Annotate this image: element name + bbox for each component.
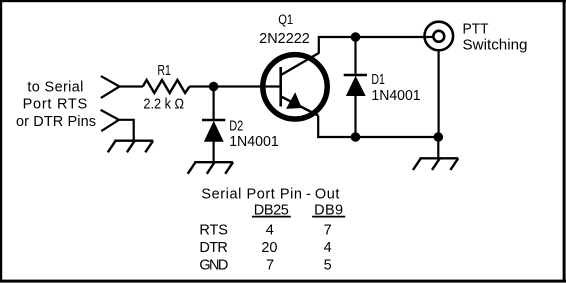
wire: bottom connector to ground [118, 120, 134, 141]
svg-text:7: 7 [266, 257, 274, 273]
svg-text:7: 7 [324, 222, 332, 238]
underline DB25 [252, 216, 291, 218]
node junction top of D1 [351, 32, 361, 42]
ground (bottom right) [413, 158, 458, 170]
svg-text:4: 4 [266, 222, 274, 238]
svg-text:1N4001: 1N4001 [371, 88, 420, 104]
input pin connector (top, to R1) [101, 76, 120, 98]
table: Serial Port Pin-Out [199, 187, 345, 274]
connector J1 PTT jack [425, 22, 454, 51]
node junction bottom of D1 [351, 132, 361, 142]
diode D1 [344, 75, 367, 137]
node junction at R1/D2 [209, 82, 219, 92]
svg-text:DTR: DTR [199, 240, 228, 256]
svg-text:20: 20 [261, 240, 277, 256]
wire: junction down to D2 [213, 87, 215, 122]
wire: R1 to base bar [190, 85, 281, 87]
transistor Q1 [263, 53, 327, 119]
svg-text:Serial Port Pin - Out: Serial Port Pin - Out [201, 187, 339, 203]
svg-text:R1: R1 [157, 63, 171, 79]
svg-text:Q1: Q1 [278, 12, 293, 27]
wire: D1 top lead [354, 37, 356, 76]
underline DB9 [312, 216, 345, 218]
node junction bottom right [434, 132, 444, 142]
ground (below D2) [188, 162, 233, 174]
diode D2 [202, 120, 225, 163]
ground (below bottom connector) [108, 141, 153, 153]
svg-text:1N4001: 1N4001 [229, 134, 279, 150]
wire: collector up and along top [319, 37, 434, 54]
svg-text:2.2 k Ω: 2.2 k Ω [143, 97, 184, 113]
wire base: connector tip to R1 start [119, 85, 144, 87]
svg-text:Port RTS: Port RTS [23, 97, 88, 113]
svg-text:RTS: RTS [199, 222, 228, 238]
resistor R1 zigzag [143, 80, 190, 93]
svg-text:2N2222: 2N2222 [259, 31, 310, 47]
svg-text:D1: D1 [371, 72, 385, 88]
svg-text:Switching: Switching [463, 37, 528, 53]
svg-text:4: 4 [324, 240, 332, 256]
svg-text:PTT: PTT [463, 21, 489, 37]
svg-text:GND: GND [199, 257, 228, 273]
wire: junction down to ground [437, 137, 439, 159]
input pin connector (bottom, grounded) [101, 110, 119, 131]
label to Serial / Port RTS / or DTR Pins [16, 80, 96, 130]
svg-text:D2: D2 [229, 118, 243, 134]
svg-text:5: 5 [324, 257, 332, 273]
svg-text:or DTR Pins: or DTR Pins [16, 114, 96, 130]
svg-text:to Serial: to Serial [27, 80, 83, 96]
wire: emitter down and along bottom [318, 116, 438, 138]
wire: jack shield down to bottom rail [438, 52, 440, 138]
